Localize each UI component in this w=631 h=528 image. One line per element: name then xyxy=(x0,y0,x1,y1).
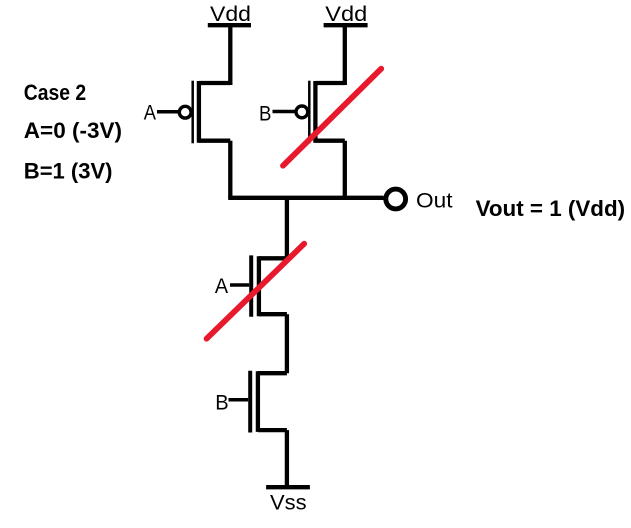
svg-text:B: B xyxy=(259,102,271,126)
transistor M4 channel bar xyxy=(256,371,260,432)
M2 gate bubble xyxy=(296,106,308,118)
transistor M1 gate bar xyxy=(191,81,194,144)
svg-text:A=0 (-3V): A=0 (-3V) xyxy=(24,118,122,143)
svg-text:B: B xyxy=(215,391,228,415)
transistor M4 source lead xyxy=(258,428,287,432)
wire M2 drain to output bus xyxy=(343,141,347,198)
svg-text:Vdd: Vdd xyxy=(210,2,251,26)
wire bus to M3 drain xyxy=(285,198,289,258)
wire M4 source to Vss bar xyxy=(285,430,289,487)
transistor M2 PMOS input B : source lead xyxy=(315,81,344,85)
transistor M3 gate bar xyxy=(249,255,253,316)
svg-text:A: A xyxy=(144,101,157,125)
off-indicator slash over NMOS M3 xyxy=(207,244,305,339)
M1 gate bubble xyxy=(179,106,191,118)
svg-text:B=1 (3V): B=1 (3V) xyxy=(24,159,113,184)
transistor M3 channel bar xyxy=(257,256,261,316)
transistor M2 gate bar xyxy=(308,81,311,144)
transistor M4 NMOS input B : drain lead xyxy=(258,371,287,375)
svg-text:Case 2: Case 2 xyxy=(24,80,86,105)
wire output bus xyxy=(228,196,383,200)
wire input B to M2 bubble xyxy=(273,110,295,114)
Vss supply bar xyxy=(266,485,310,489)
Vdd supply bar left xyxy=(208,23,251,27)
transistor M1 drain lead xyxy=(199,139,230,143)
transistor M1 PMOS input A : source lead xyxy=(199,81,230,85)
Vdd supply bar right xyxy=(324,23,368,27)
transistor M3 source lead xyxy=(259,312,287,316)
svg-text:Vout = 1 (Vdd): Vout = 1 (Vdd) xyxy=(476,196,625,221)
off-indicator slash over PMOS M2 xyxy=(283,69,381,166)
wire input A to M1 bubble xyxy=(157,110,180,114)
transistor M2 drain lead xyxy=(315,139,344,143)
wire input A to M3 gate xyxy=(230,283,249,287)
svg-text:Out: Out xyxy=(416,189,453,213)
wire input B to M4 gate xyxy=(229,398,249,402)
output terminal circle xyxy=(386,189,406,209)
wire M3 source to M4 drain xyxy=(285,314,289,373)
svg-text:Vdd: Vdd xyxy=(325,2,367,26)
transistor M4 gate bar xyxy=(248,371,252,433)
svg-text:A: A xyxy=(215,274,229,298)
wire Vdd-right to M2 source xyxy=(343,25,347,85)
wire M1 drain to output bus xyxy=(228,141,232,198)
wire Vdd-left to M1 source xyxy=(228,25,232,85)
svg-text:Vss: Vss xyxy=(270,490,307,514)
transistor M1 channel bar xyxy=(197,81,201,143)
transistor M3 NMOS input A : drain lead xyxy=(259,256,287,260)
transistor M2 channel bar xyxy=(313,81,317,143)
